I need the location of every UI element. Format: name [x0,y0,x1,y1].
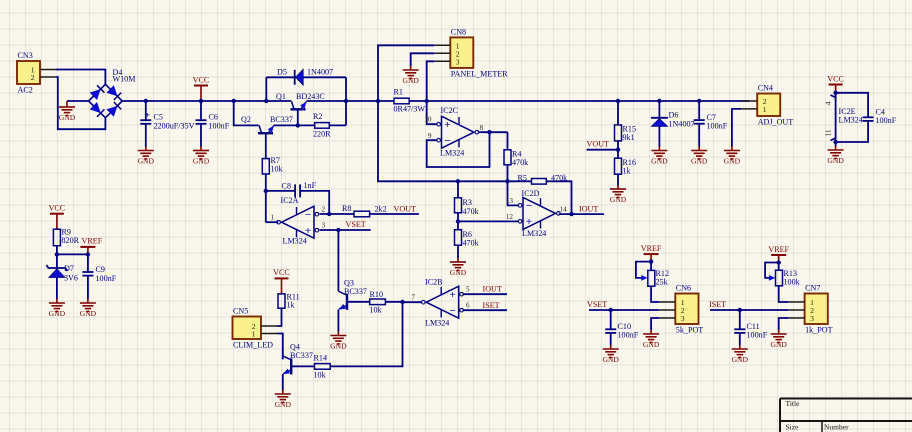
junction Q1 base node [296,123,300,127]
svg-text:BC337: BC337 [344,287,367,296]
op-amp IC2A LM324 [277,206,320,238]
wiper loop R13 [765,263,779,281]
wire R6 leads [457,221,459,258]
wire pin1 to R7 chain [266,221,279,223]
svg-text:IOUT: IOUT [579,205,598,214]
junction IC2B output node [400,300,404,304]
connector CN8 PANEL_METER [434,27,508,78]
svg-text:GND: GND [330,342,347,351]
svg-text:D6: D6 [669,111,679,120]
svg-text:D7: D7 [64,264,74,273]
svg-text:12: 12 [506,213,514,221]
svg-text:IC2B: IC2B [425,278,443,287]
resistor R1 0R47/3W [394,88,426,114]
wire R12 to CN6 pin1 [651,262,659,302]
svg-text:6: 6 [466,302,470,310]
label D6 [669,111,695,129]
wire main rail R1 to CN4 pin 2 [409,100,749,102]
junction VOUT node [616,148,620,152]
svg-text:1nF: 1nF [304,181,317,190]
wire CN7 pin3 to ground [779,318,789,330]
wire node to C9 [57,253,88,255]
junction rail-Q2 [232,99,236,103]
svg-text:GND: GND [643,340,660,349]
svg-text:IC2D: IC2D [522,189,540,198]
svg-text:CN3: CN3 [18,51,33,60]
svg-text:11: 11 [825,129,833,136]
wire node to IC2D pin13 [508,181,519,205]
op-amp power pins IC2E LM324 [825,93,863,146]
svg-text:IC2A: IC2A [281,196,299,205]
svg-text:1k_POT: 1k_POT [805,326,832,335]
wire CN5 pin1 to Q4 collector [277,334,283,360]
diode D4d (bottom-right) [106,102,121,117]
junction C5-rail [144,99,148,103]
ground at bridge [59,101,76,122]
wire D5 cathode to R2 node [345,77,347,125]
svg-text:VCC: VCC [49,204,66,213]
resistor R3 470k [455,198,480,216]
wire divider to IC2D pin12 [458,220,518,222]
svg-text:GND: GND [651,157,668,166]
capacitor C11 100nF [734,310,767,345]
net label VSET (IC2A) [346,220,366,229]
wire CN8 pin2 to ground [411,53,435,66]
wire IC2C feedback loop [427,132,490,167]
svg-text:GND: GND [138,157,155,166]
svg-text:100nF: 100nF [747,331,768,340]
svg-text:1: 1 [252,330,256,339]
connector CN7 1k_POT [789,284,833,335]
zener diode D7 3V6 [46,254,67,299]
wire rail to IC2C pin10 [427,101,437,124]
svg-text:220R: 220R [313,130,331,139]
svg-text:BD243C: BD243C [296,92,325,101]
junction VCC-rail [199,99,203,103]
net label VOUT (R8) [394,205,417,214]
resistor R14 10k [314,354,331,380]
wire pin3 VSET [320,229,371,231]
wire ISET to CN7 pin2 [710,309,789,311]
diode D5 1N4007 [295,69,304,85]
wire R16 leads [617,150,619,185]
label Q1 [276,92,325,101]
ground IC2E [827,146,844,165]
svg-text:GND: GND [610,195,627,204]
connector CN6 5k_POT [659,284,703,335]
label IC2D [522,189,547,238]
svg-text:C5: C5 [154,113,163,122]
wire R14 to IC2B output node [330,302,402,366]
svg-text:VCC: VCC [193,75,210,84]
svg-text:AC2: AC2 [18,86,33,95]
resistor R9 820R [53,228,79,246]
net label VOUT (R15) [587,140,610,149]
svg-text:GND: GND [193,157,210,166]
label IC2B [425,278,449,328]
op-amp IC2D LM324 [518,197,561,229]
svg-text:IOUT: IOUT [483,285,502,294]
svg-text:VCC: VCC [827,74,844,83]
junction C8 tap [264,189,268,193]
svg-text:R10: R10 [370,290,384,299]
resistor R6 470k [455,230,480,248]
svg-text:GND: GND [732,355,749,364]
svg-text:100nF: 100nF [707,122,728,131]
svg-text:R5: R5 [518,174,527,183]
wire VOUT sense (CN8/R1 to R3/R4 node) [378,101,508,181]
svg-text:PANEL_METER: PANEL_METER [451,69,508,78]
power VREF (R12) [641,244,662,262]
junction R2-rail [344,99,348,103]
svg-text:LM324: LM324 [839,116,863,125]
resistor R5 470k [518,174,569,185]
label Q2 [241,115,293,124]
diode D4a (top-left) [90,85,105,100]
svg-text:Q2: Q2 [241,115,251,124]
svg-text:8: 8 [480,124,484,132]
junction VREF-C9 [86,252,90,256]
svg-text:R1: R1 [394,88,403,97]
svg-text:−: − [444,135,450,147]
wiper loop R12 [636,262,651,281]
svg-text:+: + [444,119,450,131]
net label VSET (CN6) [587,300,607,309]
junction rail-D6 [657,99,661,103]
wire CN4 pin1 to ground [732,109,741,147]
svg-text:+: + [305,225,311,237]
wire Q3 emitter to ground [337,310,339,332]
ground D6 [651,147,668,166]
svg-text:R3: R3 [463,198,472,207]
capacitor C5 [140,101,194,147]
label IC2C [440,106,464,158]
label IC2A [281,196,307,246]
svg-text:GND: GND [275,400,292,409]
ground C7 [691,147,708,166]
op-amp IC2C LM324 [437,116,480,148]
wire CN8 pin3 to R1 right [427,61,435,101]
svg-text:+: + [526,216,532,228]
pin numbers IC2C [424,116,483,141]
wire IC2B pin6 ISET [463,309,508,311]
wire D6 leads [658,101,660,147]
transistor Q1 BD243C [291,102,307,110]
svg-text:VSET: VSET [587,300,607,309]
svg-text:3: 3 [322,222,326,230]
svg-text:GND: GND [691,157,708,166]
wire R5 to output [546,181,571,214]
svg-text:VCC: VCC [273,268,290,277]
svg-text:2: 2 [322,206,326,214]
capacitor C9 100nF [82,254,116,299]
svg-text:VREF: VREF [82,237,103,246]
svg-text:470k: 470k [463,207,480,216]
wire IC2B pin5 IOUT [463,293,508,295]
wire R2 to rail [329,124,346,126]
ground R16 [610,185,627,204]
resistor R15 9k1 [615,125,637,143]
wire main VCC rail left segment (bridge to Q1 collector) [122,100,291,102]
svg-text:CN5: CN5 [233,307,248,316]
wire R8 to VOUT [370,213,419,215]
svg-text:1N4007: 1N4007 [669,120,695,129]
resistor R4 470k [504,150,529,168]
svg-text:1k: 1k [287,301,296,310]
svg-text:C9: C9 [96,265,105,274]
junction R9 node [55,252,59,256]
wire R3 leads [457,181,459,221]
potentiometer R13 100k [776,269,801,287]
bridge rectifier D4 outline [89,84,123,118]
svg-text:1: 1 [763,105,767,114]
capacitor C8 1nF [282,181,317,197]
svg-text:−: − [526,200,532,212]
svg-text:3: 3 [456,57,460,66]
svg-text:C6: C6 [209,113,218,122]
net label IOUT (IC2D) [579,205,598,214]
junction R1 right [425,99,429,103]
power VCC (R11) [273,268,290,294]
connector CN5 CLIM_LED [233,307,278,350]
pin numbers IC2B [411,286,470,310]
wire IC2C output [478,131,508,133]
net label IOUT (IC2B) [483,285,502,294]
svg-text:GND: GND [602,355,619,364]
svg-text:VOUT: VOUT [394,205,417,214]
ground C6 [193,147,210,166]
svg-text:CN8: CN8 [451,27,466,36]
capacitor C4 100nF [836,93,897,142]
junction VSET-Q3 [336,228,340,232]
wire C8 right to pin2 node [300,191,329,214]
resistor R10 10k [370,290,386,315]
wire rail to R15 [617,101,619,125]
ground CN7 pin3 [770,330,787,349]
connector CN4 ADJ_OUT [741,84,793,127]
svg-text:9: 9 [428,132,432,140]
svg-text:CN4: CN4 [758,84,773,93]
wire Q4 base to R14 [291,365,314,367]
junction R1 left [376,99,380,103]
title block [780,399,912,432]
wire D5 anode leg [265,77,267,101]
svg-text:GND: GND [80,309,97,318]
capacitor C7 100nF [694,101,728,147]
ground C9 [80,299,97,318]
svg-text:R8: R8 [342,204,351,213]
svg-text:1: 1 [271,214,275,222]
junction D5-rail [264,99,268,103]
wire VSET to CN6 pin2 [589,309,659,311]
wire main rail Q1 emitter to R1 [306,100,394,102]
diode D4b (top-right) [106,85,121,100]
junction VSET-C10 [609,308,613,312]
svg-text:LM324: LM324 [522,229,546,238]
ground CN4 pin1 [724,147,741,166]
resistor R16 1k [615,158,637,176]
net label ISET (IC2B) [483,301,500,310]
svg-text:BC337: BC337 [270,115,293,124]
junction pin2 node [327,212,331,216]
power VCC (IC2E) [827,74,844,100]
power VREF (left) [80,237,102,255]
svg-text:VOUT: VOUT [587,140,610,149]
svg-text:VREF: VREF [641,244,662,253]
svg-text:2k2: 2k2 [375,205,387,214]
svg-text:820R: 820R [62,236,80,245]
ground C5 [138,147,155,166]
svg-text:9k1: 9k1 [623,133,635,142]
junction R5-output [569,212,573,216]
wire CN3 pin2 to bridge bottom [56,77,105,129]
svg-text:R9: R9 [62,228,71,237]
wire CN6 pin3 to ground [651,318,659,330]
svg-text:3: 3 [681,314,685,323]
wire Q1 base down [297,109,299,125]
wire Q3 collector to VSET [337,230,339,291]
junction IC2E top [833,91,837,95]
resistor R8 2k2 [342,204,387,217]
svg-text:470k: 470k [463,239,480,248]
wire R9 to node [56,246,58,255]
ground D7 [49,299,66,318]
junction R3-R6 [456,219,460,223]
junction ISET-C11 [738,308,742,312]
svg-text:Q1: Q1 [276,92,286,101]
svg-text:1k: 1k [623,167,632,176]
svg-text:470k: 470k [512,158,529,167]
op-amp IC2B LM324 [421,286,464,318]
svg-text:3V6: 3V6 [64,274,78,283]
power VCC (R9) [49,204,66,230]
svg-text:IC2C: IC2C [441,106,459,115]
label D5 [277,68,333,77]
svg-text:CN7: CN7 [805,284,820,293]
svg-text:ISET: ISET [483,301,500,310]
svg-text:100nF: 100nF [209,122,230,131]
transistor Q4 BC337 [283,356,291,375]
svg-text:C8: C8 [282,182,291,191]
ground C11 [732,345,749,364]
svg-text:100nF: 100nF [618,331,639,340]
svg-text:R14: R14 [314,354,328,363]
resistor R7 10k [262,156,283,174]
ground Q3 [330,332,347,351]
ground CN6 pin3 [643,330,660,349]
svg-text:13: 13 [506,197,514,205]
svg-text:LM324: LM324 [425,319,449,328]
svg-text:+: + [145,110,150,120]
ground C10 [602,345,619,364]
junction VREF-R13 [777,260,781,264]
wire node to R5 [508,180,532,182]
svg-text:LM324: LM324 [440,149,464,158]
connector CN3 AC2 [17,51,56,95]
pin numbers IC2A [271,206,326,230]
svg-text:W10M: W10M [113,75,136,84]
junction R4 node [505,179,509,183]
label D4 [113,68,136,84]
svg-text:5: 5 [466,286,470,294]
ground R6 [450,258,467,277]
power VREF (R13) [768,245,789,263]
wire R7 to opamp pin1 [265,174,267,222]
junction R3 top [456,179,460,183]
svg-text:Title: Title [786,399,801,408]
junction rail-C7 [697,99,701,103]
svg-text:Number: Number [824,423,849,432]
diode D4c (bottom-left) [90,102,105,117]
capacitor C10 100nF [605,310,638,345]
junction IC2E bottom [833,140,837,144]
wire D5 horizontal [266,76,346,78]
svg-text:GND: GND [770,340,787,349]
svg-text:3: 3 [810,314,814,323]
label Q3 [344,279,367,297]
resistor R11 1k [278,293,300,310]
wire rail to Q2 collector [234,101,259,125]
svg-text:10k: 10k [314,371,327,380]
svg-text:ISET: ISET [709,300,726,309]
svg-text:LM324: LM324 [283,237,307,246]
wire node to IC2B pin7 [403,301,423,303]
svg-text:0R47/3W: 0R47/3W [394,105,426,114]
wire R10 to node [385,301,402,303]
wire C8 left [266,190,295,192]
svg-text:VREF: VREF [768,245,789,254]
svg-text:GND: GND [402,76,419,85]
svg-text:14: 14 [560,206,568,214]
ground CN8 pin2 [402,66,419,85]
svg-text:D5: D5 [277,68,287,77]
wire VOUT stub [587,149,619,151]
wire pin2 to R8 [320,213,355,215]
svg-text:R2: R2 [313,112,322,121]
resistor R2 220R [313,112,331,139]
pin numbers IC2D [506,197,567,221]
svg-text:+: + [450,289,456,301]
junction IC2C fb [487,130,491,134]
svg-text:GND: GND [450,268,467,277]
svg-text:5k_POT: 5k_POT [676,326,703,335]
wire IC2D output IOUT [559,213,604,215]
transistor Q3 BC337 [339,291,347,310]
label D7 [64,264,78,283]
transistor Q2 BC337 [258,125,274,133]
svg-text:CLIM_LED: CLIM_LED [233,341,273,350]
ground Q4 [275,390,292,409]
power VCC (main rail) [193,75,210,101]
wire output down to R4 [507,132,509,150]
svg-text:1N4007: 1N4007 [307,68,333,77]
wire Q2 emitter to base node [274,124,298,126]
svg-text:100nF: 100nF [96,274,117,283]
potentiometer R12 25k [648,269,669,287]
diode D6 1N4007 [651,118,668,127]
net label ISET (CN7) [709,300,726,309]
svg-text:VSET: VSET [346,220,366,229]
wire CN3 pin1 to bridge top [56,70,105,85]
wire R4 to node [507,165,509,182]
wire Q3 base to R10 [347,301,370,303]
svg-text:100k: 100k [784,278,801,287]
junction rail-R15 [616,99,620,103]
junction VREF-R12 [649,259,653,263]
svg-text:10: 10 [424,116,432,124]
capacitor C6 [196,101,230,147]
svg-text:CN6: CN6 [676,284,691,293]
